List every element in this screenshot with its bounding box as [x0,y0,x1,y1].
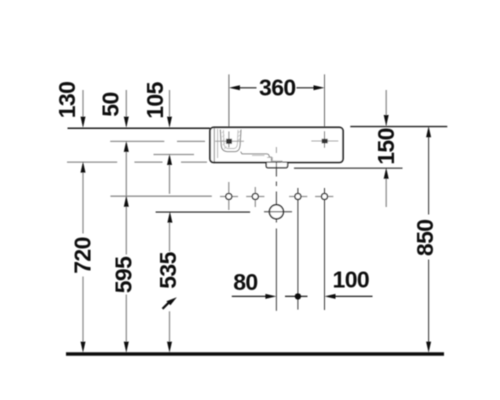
svg-text:50: 50 [98,92,124,116]
svg-text:595: 595 [110,256,136,293]
svg-text:130: 130 [54,82,80,119]
svg-text:80: 80 [233,269,257,295]
svg-text:850: 850 [412,220,438,257]
svg-text:150: 150 [373,128,399,165]
svg-text:105: 105 [142,81,168,118]
svg-text:360: 360 [259,74,296,100]
svg-text:100: 100 [333,267,370,293]
svg-text:535: 535 [155,251,181,288]
svg-text:720: 720 [69,237,95,274]
